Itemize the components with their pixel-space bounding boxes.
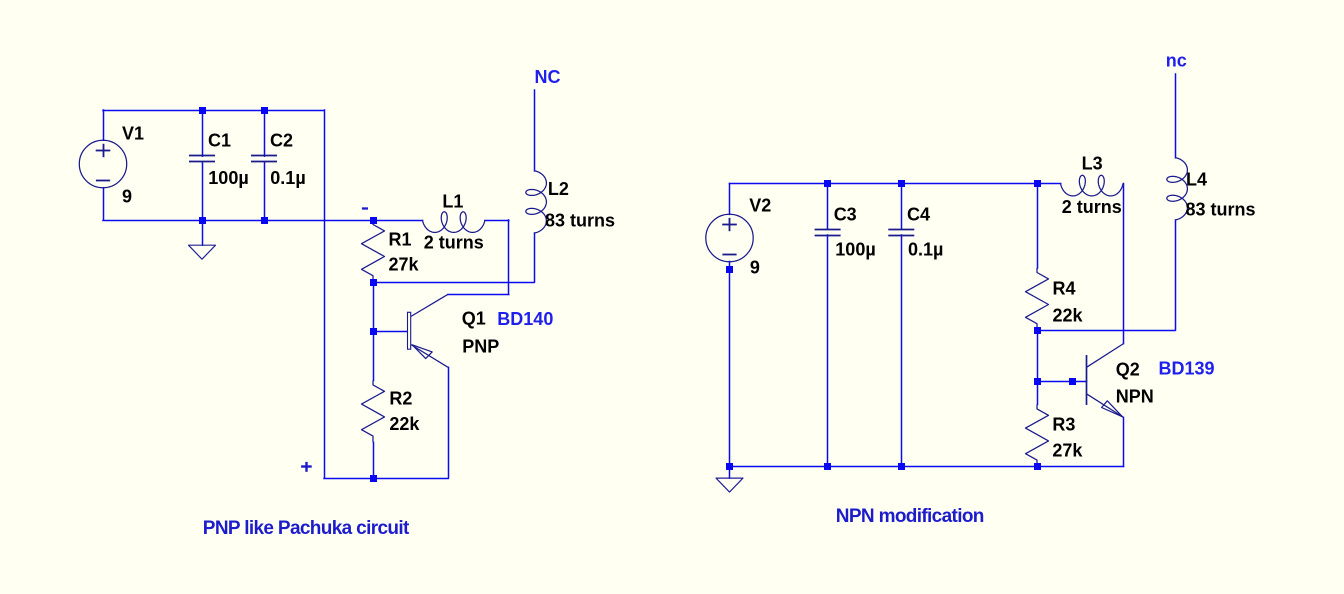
svg-text:C3: C3	[834, 204, 857, 224]
svg-text:R2: R2	[389, 388, 412, 408]
svg-text:V1: V1	[122, 123, 144, 143]
svg-text:BD139: BD139	[1159, 359, 1215, 379]
svg-text:L2: L2	[548, 179, 569, 199]
svg-text:R1: R1	[389, 230, 412, 250]
svg-text:C2: C2	[270, 131, 293, 151]
svg-text:9: 9	[122, 186, 132, 206]
svg-text:83 turns: 83 turns	[1186, 200, 1256, 220]
svg-text:R3: R3	[1052, 415, 1075, 435]
svg-text:27k: 27k	[1052, 440, 1083, 460]
svg-text:27k: 27k	[389, 254, 420, 274]
svg-text:100µ: 100µ	[208, 168, 248, 188]
svg-text:nc: nc	[1166, 51, 1187, 71]
svg-text:L1: L1	[442, 192, 463, 212]
svg-text:0.1µ: 0.1µ	[270, 168, 305, 188]
svg-text:C1: C1	[208, 131, 231, 151]
svg-text:V2: V2	[749, 196, 771, 216]
svg-text:L4: L4	[1186, 170, 1207, 190]
svg-text:2 turns: 2 turns	[424, 233, 484, 253]
svg-text:Q2: Q2	[1116, 360, 1140, 380]
svg-text:PNP: PNP	[462, 336, 499, 356]
svg-text:NPN: NPN	[1116, 387, 1154, 407]
svg-text:L3: L3	[1082, 154, 1103, 174]
svg-text:22k: 22k	[389, 414, 420, 434]
svg-text:NC: NC	[535, 67, 561, 87]
svg-text:0.1µ: 0.1µ	[908, 240, 943, 260]
svg-text:PNP like Pachuka circuit: PNP like Pachuka circuit	[203, 518, 410, 539]
svg-text:2 turns: 2 turns	[1062, 197, 1122, 217]
svg-text:C4: C4	[907, 204, 930, 224]
svg-text:Q1: Q1	[462, 309, 486, 329]
svg-text:NPN modification: NPN modification	[836, 506, 984, 527]
svg-text:BD140: BD140	[497, 309, 553, 329]
svg-text:R4: R4	[1053, 279, 1076, 299]
svg-text:83 turns: 83 turns	[545, 211, 615, 231]
svg-text:22k: 22k	[1053, 306, 1084, 326]
svg-text:100µ: 100µ	[835, 240, 875, 260]
svg-text:9: 9	[750, 257, 760, 277]
